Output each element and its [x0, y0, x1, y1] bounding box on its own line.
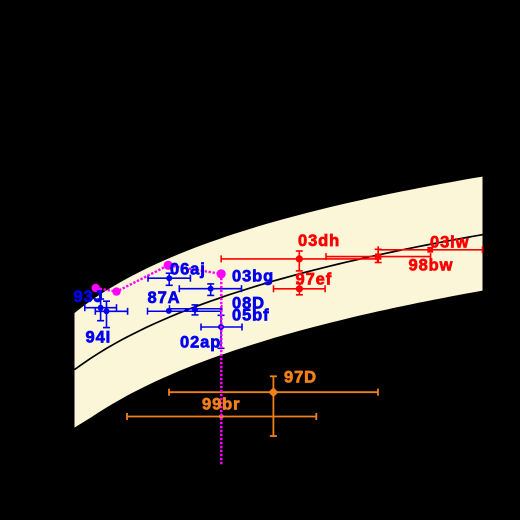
svg-text:02ap: 02ap	[180, 334, 221, 352]
data point 97ef	[296, 285, 303, 292]
error bars 93J	[85, 299, 117, 321]
data point 87A	[166, 308, 172, 314]
model curve	[75, 235, 483, 370]
data point 93J	[98, 305, 104, 311]
data point 06aj	[166, 275, 172, 281]
error bars 06aj	[148, 273, 190, 285]
magenta point 3	[164, 261, 173, 270]
shaded band	[75, 177, 483, 428]
svg-text:93J: 93J	[74, 288, 104, 306]
data point 03lw (square)	[427, 247, 433, 253]
data point 03dh	[296, 255, 303, 262]
svg-text:03bg: 03bg	[232, 268, 274, 286]
svg-text:97D: 97D	[284, 369, 317, 387]
magenta dotted vertical line	[220, 274, 223, 465]
magenta point 2	[112, 287, 120, 295]
svg-text:03lw: 03lw	[430, 234, 469, 252]
error bars 03bg	[179, 284, 241, 296]
error bars 03dh	[221, 251, 377, 271]
magenta point 1	[92, 284, 100, 292]
data point 98bw (square)	[375, 253, 381, 259]
error bars 05bf	[201, 315, 242, 348]
svg-text:99br: 99br	[202, 396, 240, 414]
data point 97D (diamond)	[268, 387, 278, 397]
svg-text:03dh: 03dh	[298, 232, 340, 250]
data point 03bg	[208, 286, 214, 292]
magenta dotted track	[96, 265, 222, 291]
error bars 08D	[170, 305, 222, 315]
error bar 87A	[148, 310, 221, 312]
svg-text:98bw: 98bw	[409, 257, 454, 275]
data point 94I	[104, 308, 110, 314]
data point 05bf	[218, 324, 224, 330]
error bars 97D	[169, 376, 378, 436]
error bars 98bw	[326, 249, 431, 262]
error bars 94I	[95, 301, 127, 327]
svg-text:94I: 94I	[86, 329, 112, 347]
magenta point 4	[217, 269, 226, 278]
error bar 99br	[127, 416, 316, 418]
svg-text:87A: 87A	[148, 289, 181, 307]
svg-text:06aj: 06aj	[170, 261, 206, 279]
svg-text:05bf: 05bf	[232, 307, 270, 325]
data point 08D	[192, 307, 198, 313]
error bar 03lw	[378, 249, 482, 251]
error bars 97ef	[274, 284, 326, 295]
data point 99br (diamond)	[218, 413, 225, 420]
svg-text:97ef: 97ef	[296, 270, 333, 288]
